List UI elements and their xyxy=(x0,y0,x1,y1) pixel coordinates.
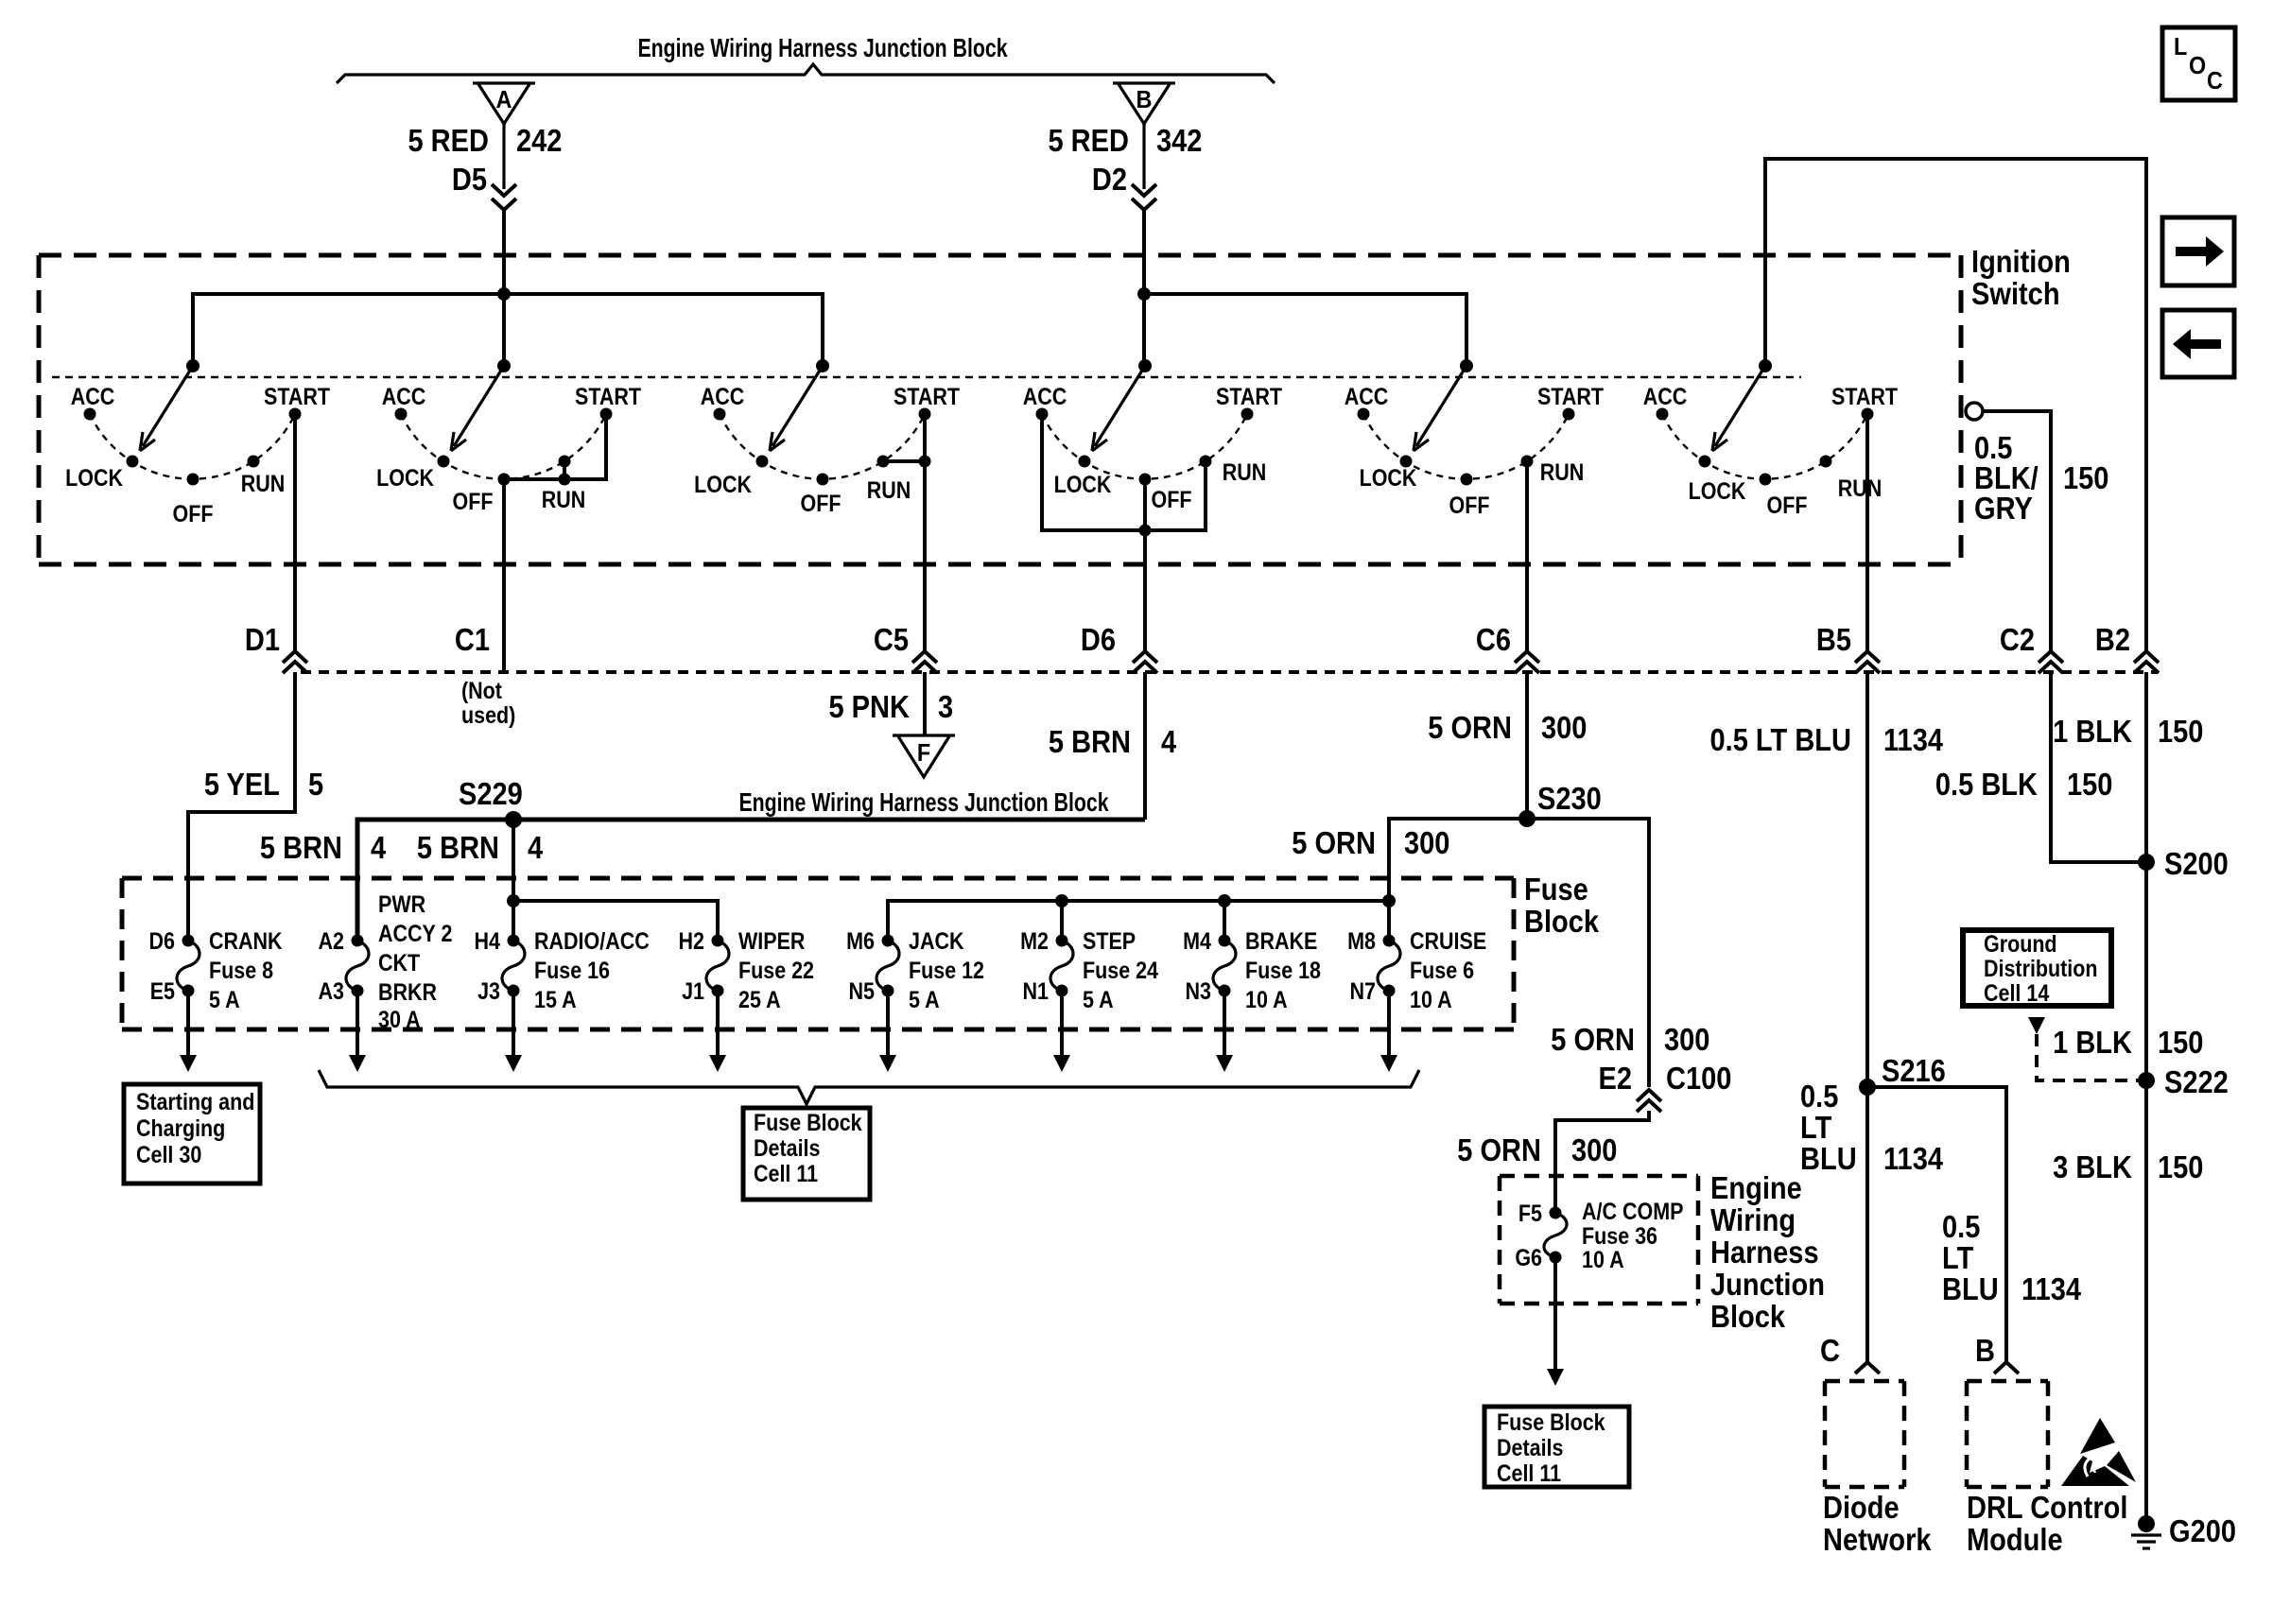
svg-text:Module: Module xyxy=(1967,1522,2063,1557)
svg-text:Harness: Harness xyxy=(1710,1235,1819,1270)
svg-text:BLU: BLU xyxy=(1800,1141,1857,1176)
fuse CRANK Fuse 8 5A xyxy=(182,935,195,947)
fuse A/C COMP Fuse 36 10A xyxy=(1550,1207,1562,1219)
svg-text:M6: M6 xyxy=(846,927,875,954)
svg-text:N3: N3 xyxy=(1186,977,1212,1004)
ground G200 xyxy=(2138,1515,2155,1532)
svg-text:30 A: 30 A xyxy=(378,1006,421,1032)
fuse block dashed box xyxy=(122,876,1514,881)
chevron at B pin xyxy=(1994,1362,2019,1373)
A/C junction block dashed box xyxy=(1500,1174,1698,1179)
svg-text:A3: A3 xyxy=(319,977,345,1004)
switch 5 LOCK contact xyxy=(1400,456,1413,468)
switch 2 ACC contact xyxy=(395,408,408,421)
svg-text:M8: M8 xyxy=(1347,927,1376,954)
svg-text:Block: Block xyxy=(1524,904,1600,939)
switch 2 junction dots xyxy=(559,474,571,486)
svg-text:C: C xyxy=(2207,68,2223,95)
wire D1 to crank fuse (5 YEL 5) xyxy=(188,672,295,941)
svg-text:Engine: Engine xyxy=(1710,1170,1802,1205)
switch 6 RUN contact xyxy=(1820,456,1832,468)
fuse STEP Fuse 24 5A xyxy=(1056,935,1068,947)
svg-text:C1: C1 xyxy=(455,622,490,657)
svg-text:Details: Details xyxy=(754,1134,820,1161)
svg-text:OFF: OFF xyxy=(453,488,494,514)
svg-text:D5: D5 xyxy=(452,162,487,197)
fuse RADIO/ACC Fuse 16 15A xyxy=(508,935,520,947)
svg-text:OFF: OFF xyxy=(801,490,842,516)
wire C2 down to S200 xyxy=(2051,672,2146,862)
svg-text:F: F xyxy=(917,740,930,767)
connector triangle A xyxy=(473,83,535,124)
svg-text:150: 150 xyxy=(2067,767,2112,802)
svg-text:H4: H4 xyxy=(475,927,501,954)
svg-text:Fuse 22: Fuse 22 xyxy=(738,957,814,983)
svg-text:STEP: STEP xyxy=(1083,927,1136,954)
wire D6 down to S229 bus xyxy=(1143,672,1147,820)
svg-text:1134: 1134 xyxy=(1883,1141,1944,1176)
wire S230 right branch to E2 xyxy=(1527,819,1649,1087)
feed rail from B (switches 4-5) xyxy=(1144,294,1466,366)
svg-text:5 BRN: 5 BRN xyxy=(1049,724,1131,759)
svg-text:Block: Block xyxy=(1710,1299,1786,1334)
svg-text:300: 300 xyxy=(1571,1132,1617,1167)
wire D2 from B xyxy=(1142,124,1145,189)
svg-text:C: C xyxy=(1820,1333,1840,1368)
svg-text:JACK: JACK xyxy=(909,927,964,954)
connector chevrons at D1 xyxy=(283,651,307,663)
circuit breaker PWR ACCY 2 30A xyxy=(352,935,364,947)
svg-text:WIPER: WIPER xyxy=(738,927,806,954)
fuse output wires with arrows xyxy=(186,991,190,1055)
switch 5 RUN contact xyxy=(1521,456,1534,468)
switch 1 LOCK contact xyxy=(127,456,139,468)
svg-text:5 ORN: 5 ORN xyxy=(1457,1132,1541,1167)
svg-text:RUN: RUN xyxy=(241,470,286,496)
wire S200 to S222 xyxy=(2144,862,2148,1080)
node S216 xyxy=(1859,1079,1876,1096)
svg-text:START: START xyxy=(575,383,641,409)
svg-text:Network: Network xyxy=(1823,1522,1932,1557)
svg-text:5 RED: 5 RED xyxy=(408,123,489,158)
svg-text:RUN: RUN xyxy=(867,476,911,503)
svg-text:D2: D2 xyxy=(1092,162,1127,197)
svg-text:Cell 11: Cell 11 xyxy=(754,1160,818,1186)
svg-text:25 A: 25 A xyxy=(738,986,781,1012)
wire D5 from A xyxy=(502,124,505,189)
svg-text:Ignition: Ignition xyxy=(1971,244,2071,279)
svg-text:3: 3 xyxy=(938,689,953,724)
ignition switch wafer 5: pivot xyxy=(1460,359,1473,372)
svg-text:CKT: CKT xyxy=(378,949,420,976)
svg-text:J3: J3 xyxy=(477,977,500,1004)
switch 1 contact arc xyxy=(90,414,295,479)
fuse BRAKE Fuse 18 10A xyxy=(1219,935,1231,947)
switch 6 LOCK contact xyxy=(1699,456,1711,468)
wire B to ignition switch xyxy=(1142,210,1146,366)
svg-text:Fuse 18: Fuse 18 xyxy=(1245,957,1321,983)
switch 3 LOCK contact xyxy=(756,456,769,468)
box Fuse Block Details Cell 11 xyxy=(743,1108,870,1200)
svg-text:E2: E2 xyxy=(1598,1061,1632,1096)
svg-text:5 YEL: 5 YEL xyxy=(204,767,280,802)
node M2 feed xyxy=(1055,894,1068,907)
wire S229 down to radio fuse xyxy=(512,820,515,941)
node on radio feed xyxy=(507,894,520,907)
svg-text:OFF: OFF xyxy=(1767,492,1808,518)
svg-text:BRAKE: BRAKE xyxy=(1245,927,1317,954)
svg-text:(Not: (Not xyxy=(461,677,502,703)
svg-text:START: START xyxy=(1537,383,1604,409)
svg-text:Charging: Charging xyxy=(136,1114,225,1141)
svg-text:S229: S229 xyxy=(459,776,523,811)
svg-text:Fuse 8: Fuse 8 xyxy=(209,957,273,983)
svg-text:10 A: 10 A xyxy=(1582,1246,1624,1272)
chevron at C pin xyxy=(1855,1362,1880,1373)
wire E2 to A/C fuse xyxy=(1555,1111,1649,1213)
node junction on wire A xyxy=(497,287,511,301)
svg-text:1 BLK: 1 BLK xyxy=(2053,1025,2132,1060)
wire S230 left branch to cruise fuse xyxy=(1389,819,1527,941)
S229 bus wire xyxy=(357,820,1145,941)
switch 3 ACC contact xyxy=(714,408,726,421)
svg-text:RADIO/ACC: RADIO/ACC xyxy=(534,927,650,954)
svg-text:5 RED: 5 RED xyxy=(1048,123,1129,158)
ignition switch wafer 6: pivot xyxy=(1759,359,1772,372)
switch 4 contact arc xyxy=(1042,414,1247,479)
svg-text:D1: D1 xyxy=(245,622,280,657)
switch 4 rotor arrow xyxy=(1095,366,1145,446)
svg-text:ACC: ACC xyxy=(701,383,745,409)
svg-text:LT: LT xyxy=(1942,1240,1973,1275)
svg-text:J1: J1 xyxy=(682,977,704,1004)
wire C5 to junction block F xyxy=(923,672,927,735)
svg-text:GRY: GRY xyxy=(1974,491,2033,526)
svg-text:S216: S216 xyxy=(1882,1053,1946,1088)
svg-text:1134: 1134 xyxy=(1883,722,1944,757)
svg-text:H2: H2 xyxy=(679,927,705,954)
switch 3 junction dot xyxy=(919,456,931,468)
switch 4 LOCK contact xyxy=(1079,456,1091,468)
switch 1 START contact xyxy=(289,408,302,421)
diode network dashed box xyxy=(1825,1379,1904,1384)
svg-text:ACC: ACC xyxy=(71,383,115,409)
svg-text:3 BLK: 3 BLK xyxy=(2053,1149,2132,1184)
svg-text:RUN: RUN xyxy=(1838,475,1883,501)
svg-text:A2: A2 xyxy=(319,927,345,954)
node S230 xyxy=(1518,810,1536,827)
svg-text:C6: C6 xyxy=(1476,622,1511,657)
switch 5 ACC contact xyxy=(1358,408,1370,421)
svg-text:15 A: 15 A xyxy=(534,986,577,1012)
svg-text:Fuse 36: Fuse 36 xyxy=(1582,1222,1657,1249)
svg-text:Distribution: Distribution xyxy=(1984,955,2098,981)
svg-text:F5: F5 xyxy=(1518,1200,1542,1226)
switch 3 START contact xyxy=(919,408,931,421)
left arrow legend box xyxy=(2162,310,2234,377)
switch 1 OFF contact xyxy=(187,474,200,486)
svg-text:OFF: OFF xyxy=(173,500,214,527)
wire 0.5 BLK/GRY 150 to C2 xyxy=(1983,411,2051,652)
svg-text:Ground: Ground xyxy=(1984,930,2057,957)
svg-text:N7: N7 xyxy=(1350,977,1376,1004)
svg-text:G6: G6 xyxy=(1515,1244,1542,1270)
switch 5 rotor arrow xyxy=(1416,366,1466,446)
switch 4 ACC bracket to RUN xyxy=(1042,414,1206,530)
connector triangle B xyxy=(1113,83,1175,124)
dashed ground wire to S222 xyxy=(2037,1034,2138,1080)
wire switch 6 START to B5 xyxy=(1865,414,1869,652)
svg-text:5 A: 5 A xyxy=(909,986,940,1012)
svg-text:B: B xyxy=(1136,87,1153,113)
svg-text:N1: N1 xyxy=(1023,977,1050,1004)
svg-text:BLU: BLU xyxy=(1942,1271,1999,1306)
svg-text:342: 342 xyxy=(1156,123,1202,158)
svg-text:Cell 11: Cell 11 xyxy=(1497,1460,1561,1486)
wire S216 to diode network C xyxy=(1865,1087,1869,1361)
svg-text:Fuse Block: Fuse Block xyxy=(754,1109,862,1135)
switch 1 RUN contact xyxy=(248,456,260,468)
svg-text:ACC: ACC xyxy=(1345,383,1389,409)
switch 3 OFF contact xyxy=(817,474,829,486)
connector chevrons at D6 xyxy=(1133,651,1157,663)
svg-text:B5: B5 xyxy=(1816,622,1851,657)
svg-text:300: 300 xyxy=(1541,710,1587,745)
svg-text:10 A: 10 A xyxy=(1410,986,1452,1012)
switch 4 START contact xyxy=(1241,408,1254,421)
node M8 feed xyxy=(1382,894,1396,907)
svg-text:LOCK: LOCK xyxy=(1689,477,1746,504)
svg-text:LOCK: LOCK xyxy=(1360,464,1417,491)
switch 5 OFF contact xyxy=(1461,474,1473,486)
connector chevrons at C6 xyxy=(1515,651,1539,663)
svg-text:150: 150 xyxy=(2158,1149,2203,1184)
svg-text:5 ORN: 5 ORN xyxy=(1551,1022,1635,1057)
box Fuse Block Details Cell 11 (second) xyxy=(1484,1407,1629,1487)
svg-text:Fuse 16: Fuse 16 xyxy=(534,957,610,983)
wire switch 3 START to C5 xyxy=(923,414,927,652)
wire switch 4 OFF to D6 xyxy=(1143,479,1147,652)
switch 3 RUN stub xyxy=(883,459,925,463)
svg-text:150: 150 xyxy=(2063,460,2108,495)
svg-text:RUN: RUN xyxy=(1540,458,1585,485)
wire B5 down to S216 xyxy=(1865,672,1869,1087)
svg-text:Fuse 24: Fuse 24 xyxy=(1083,957,1158,983)
wire C6 down to S230 xyxy=(1525,672,1529,819)
svg-text:Fuse: Fuse xyxy=(1524,872,1588,907)
arrow from ground distribution xyxy=(2028,1017,2045,1034)
switch 4 RUN contact xyxy=(1200,456,1212,468)
chevron marks on D2 wire xyxy=(1132,184,1156,196)
connector chevrons at C2 xyxy=(2039,651,2063,663)
wire B2 down to S200 xyxy=(2144,672,2148,862)
svg-text:Junction: Junction xyxy=(1710,1267,1825,1302)
svg-text:Details: Details xyxy=(1497,1434,1563,1460)
svg-text:Fuse 12: Fuse 12 xyxy=(909,957,984,983)
node S229 xyxy=(505,811,522,828)
svg-text:used): used) xyxy=(461,701,515,728)
svg-text:M2: M2 xyxy=(1020,927,1049,954)
svg-text:G200: G200 xyxy=(2169,1513,2236,1548)
wires bus drops xyxy=(1060,901,1064,941)
svg-text:LOCK: LOCK xyxy=(1054,471,1112,497)
svg-text:10 A: 10 A xyxy=(1245,986,1288,1012)
node M4 feed xyxy=(1218,894,1231,907)
svg-text:CRUISE: CRUISE xyxy=(1410,927,1486,954)
svg-text:300: 300 xyxy=(1664,1022,1709,1057)
feed rail from A (switches 1-3) xyxy=(193,294,823,366)
svg-text:0.5 LT BLU: 0.5 LT BLU xyxy=(1710,722,1851,757)
chevron marks on D5 wire xyxy=(492,184,516,196)
svg-text:D6: D6 xyxy=(1081,622,1116,657)
svg-text:B2: B2 xyxy=(2095,622,2130,657)
switch 5 START contact xyxy=(1563,408,1575,421)
wire S216 to DRL module B xyxy=(1867,1087,2006,1361)
svg-text:RUN: RUN xyxy=(542,486,586,512)
svg-text:0.5: 0.5 xyxy=(1942,1209,1980,1244)
svg-text:242: 242 xyxy=(516,123,562,158)
svg-text:150: 150 xyxy=(2158,1025,2203,1060)
svg-text:4: 4 xyxy=(528,830,544,865)
node S200 xyxy=(2138,854,2155,871)
connector chevrons at B2 xyxy=(2134,651,2159,663)
svg-text:0.5: 0.5 xyxy=(1800,1079,1838,1114)
node junction on wire B xyxy=(1137,287,1151,301)
svg-text:C5: C5 xyxy=(874,622,909,657)
svg-text:5 ORN: 5 ORN xyxy=(1428,710,1512,745)
wire switch 2 OFF to C1 (not used) xyxy=(502,479,506,672)
svg-text:LOCK: LOCK xyxy=(694,471,752,497)
wire A to ignition switch xyxy=(502,210,506,366)
ignition switch wafer 1: pivot xyxy=(186,359,200,372)
box Starting and Charging Cell 30 xyxy=(124,1084,260,1183)
svg-text:1 BLK: 1 BLK xyxy=(2053,714,2132,749)
svg-text:A: A xyxy=(496,87,512,113)
svg-text:Diode: Diode xyxy=(1823,1490,1900,1525)
svg-text:RUN: RUN xyxy=(1223,458,1267,485)
switch 3 contact arc xyxy=(720,414,925,479)
svg-text:B: B xyxy=(1975,1333,1995,1368)
svg-text:START: START xyxy=(894,383,960,409)
LOC legend box xyxy=(2162,27,2235,100)
switch 2 RUN contact xyxy=(559,456,571,468)
svg-text:ACCY 2: ACCY 2 xyxy=(378,920,452,946)
svg-text:LOCK: LOCK xyxy=(65,464,123,491)
switch 6 contact arc xyxy=(1662,414,1867,479)
wire switch 5 RUN to C6 xyxy=(1525,461,1529,652)
fuse CRUISE Fuse 6 10A xyxy=(1383,935,1396,947)
connector chevrons at C5 xyxy=(912,651,937,663)
inner dashed contact line xyxy=(52,376,1801,378)
svg-text:C100: C100 xyxy=(1666,1061,1731,1096)
svg-text:150: 150 xyxy=(2158,714,2203,749)
svg-text:5 A: 5 A xyxy=(1083,986,1114,1012)
svg-text:PWR: PWR xyxy=(378,890,425,917)
ignition switch wafer 2: pivot xyxy=(497,359,511,372)
jack-cruise feed bus xyxy=(888,901,1389,941)
ignition switch dashed box xyxy=(39,253,1961,258)
svg-text:5 PNK: 5 PNK xyxy=(828,689,910,724)
connector triangle F xyxy=(893,735,955,777)
switch 6 rotor arrow xyxy=(1715,366,1765,446)
svg-text:START: START xyxy=(1216,383,1282,409)
box Ground Distribution Cell 14 xyxy=(1963,930,2111,1006)
connector chevrons at B5 xyxy=(1855,651,1880,663)
fuse JACK Fuse 12 5A xyxy=(882,935,894,947)
connector chevrons at E2/C100 xyxy=(1637,1090,1661,1101)
svg-text:O: O xyxy=(2189,53,2206,79)
svg-text:START: START xyxy=(264,383,330,409)
svg-text:5 BRN: 5 BRN xyxy=(260,830,342,865)
svg-text:Cell 14: Cell 14 xyxy=(1984,979,2049,1006)
switch 4 ACC contact xyxy=(1036,408,1049,421)
svg-text:S230: S230 xyxy=(1537,781,1602,816)
ignition switch case ground contact (circle) xyxy=(1966,403,1983,420)
switch 2 OFF contact xyxy=(498,474,511,486)
svg-text:M4: M4 xyxy=(1183,927,1211,954)
switch 1 ACC contact xyxy=(84,408,96,421)
wire S222 to G200 xyxy=(2144,1080,2148,1524)
switch 3 rotor arrow xyxy=(772,366,823,446)
wire switch 1 START to D1 xyxy=(293,414,297,652)
brace under fuse outputs xyxy=(319,1070,1419,1104)
svg-text:C2: C2 xyxy=(2000,622,2035,657)
svg-text:S222: S222 xyxy=(2164,1064,2229,1099)
svg-text:4: 4 xyxy=(1161,724,1177,759)
svg-text:Engine Wiring Harness Junction: Engine Wiring Harness Junction Block xyxy=(637,33,1007,63)
brace for junction block (top) xyxy=(337,64,1275,83)
svg-text:Starting and: Starting and xyxy=(136,1088,254,1114)
svg-text:Fuse 6: Fuse 6 xyxy=(1410,957,1474,983)
switch 6 OFF contact xyxy=(1760,474,1772,486)
switch 4 OFF contact xyxy=(1139,474,1152,486)
svg-text:A/C COMP: A/C COMP xyxy=(1582,1198,1683,1224)
DRL control module dashed box xyxy=(1967,1379,2048,1384)
svg-text:Switch: Switch xyxy=(1971,276,2060,311)
svg-text:OFF: OFF xyxy=(1449,492,1490,518)
svg-text:5 A: 5 A xyxy=(209,986,240,1012)
svg-text:N5: N5 xyxy=(849,977,876,1004)
switch 2 START bracket to OFF xyxy=(504,414,606,479)
svg-text:CRANK: CRANK xyxy=(209,927,283,954)
svg-text:BRKR: BRKR xyxy=(378,978,437,1005)
svg-text:LT: LT xyxy=(1800,1110,1831,1145)
right arrow legend box xyxy=(2162,217,2234,285)
ignition switch wafer 4: pivot xyxy=(1138,359,1152,372)
svg-text:LOCK: LOCK xyxy=(376,464,434,491)
svg-text:5 BRN: 5 BRN xyxy=(417,830,499,865)
ESD sensitive symbol xyxy=(2080,1418,2115,1454)
switch 1 rotor arrow xyxy=(143,366,193,446)
switch 2 LOCK contact xyxy=(438,456,450,468)
switch 6 START contact xyxy=(1862,408,1874,421)
svg-text:Engine Wiring Harness Junction: Engine Wiring Harness Junction Block xyxy=(738,787,1108,818)
switch 3 RUN contact xyxy=(877,456,890,468)
switch 4 junction dot xyxy=(1139,525,1152,537)
svg-text:DRL Control: DRL Control xyxy=(1967,1490,2127,1525)
feed rail for switch 6 from ground line xyxy=(1765,159,2146,652)
svg-text:Wiring: Wiring xyxy=(1710,1202,1796,1237)
svg-text:5: 5 xyxy=(308,767,323,802)
svg-text:4: 4 xyxy=(371,830,387,865)
svg-text:ACC: ACC xyxy=(1023,383,1067,409)
svg-text:5 ORN: 5 ORN xyxy=(1292,825,1376,860)
svg-text:300: 300 xyxy=(1404,825,1449,860)
svg-text:L: L xyxy=(2174,34,2187,60)
fuse WIPER Fuse 22 25A xyxy=(712,935,724,947)
radio/wiper feed bus xyxy=(513,901,718,941)
svg-text:E5: E5 xyxy=(150,977,175,1004)
